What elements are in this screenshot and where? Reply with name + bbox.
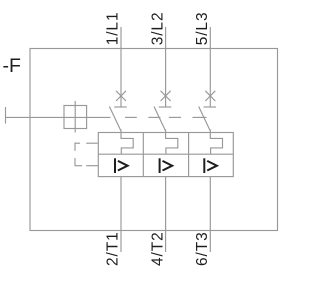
svg-text:1/L1: 1/L1: [105, 12, 122, 46]
svg-text:6/T3: 6/T3: [194, 231, 211, 266]
svg-text:2/T1: 2/T1: [105, 231, 122, 266]
svg-text:5/L3: 5/L3: [194, 12, 211, 46]
svg-text:-F: -F: [3, 55, 21, 77]
svg-text:4/T2: 4/T2: [149, 231, 166, 266]
svg-text:3/L2: 3/L2: [149, 12, 166, 46]
